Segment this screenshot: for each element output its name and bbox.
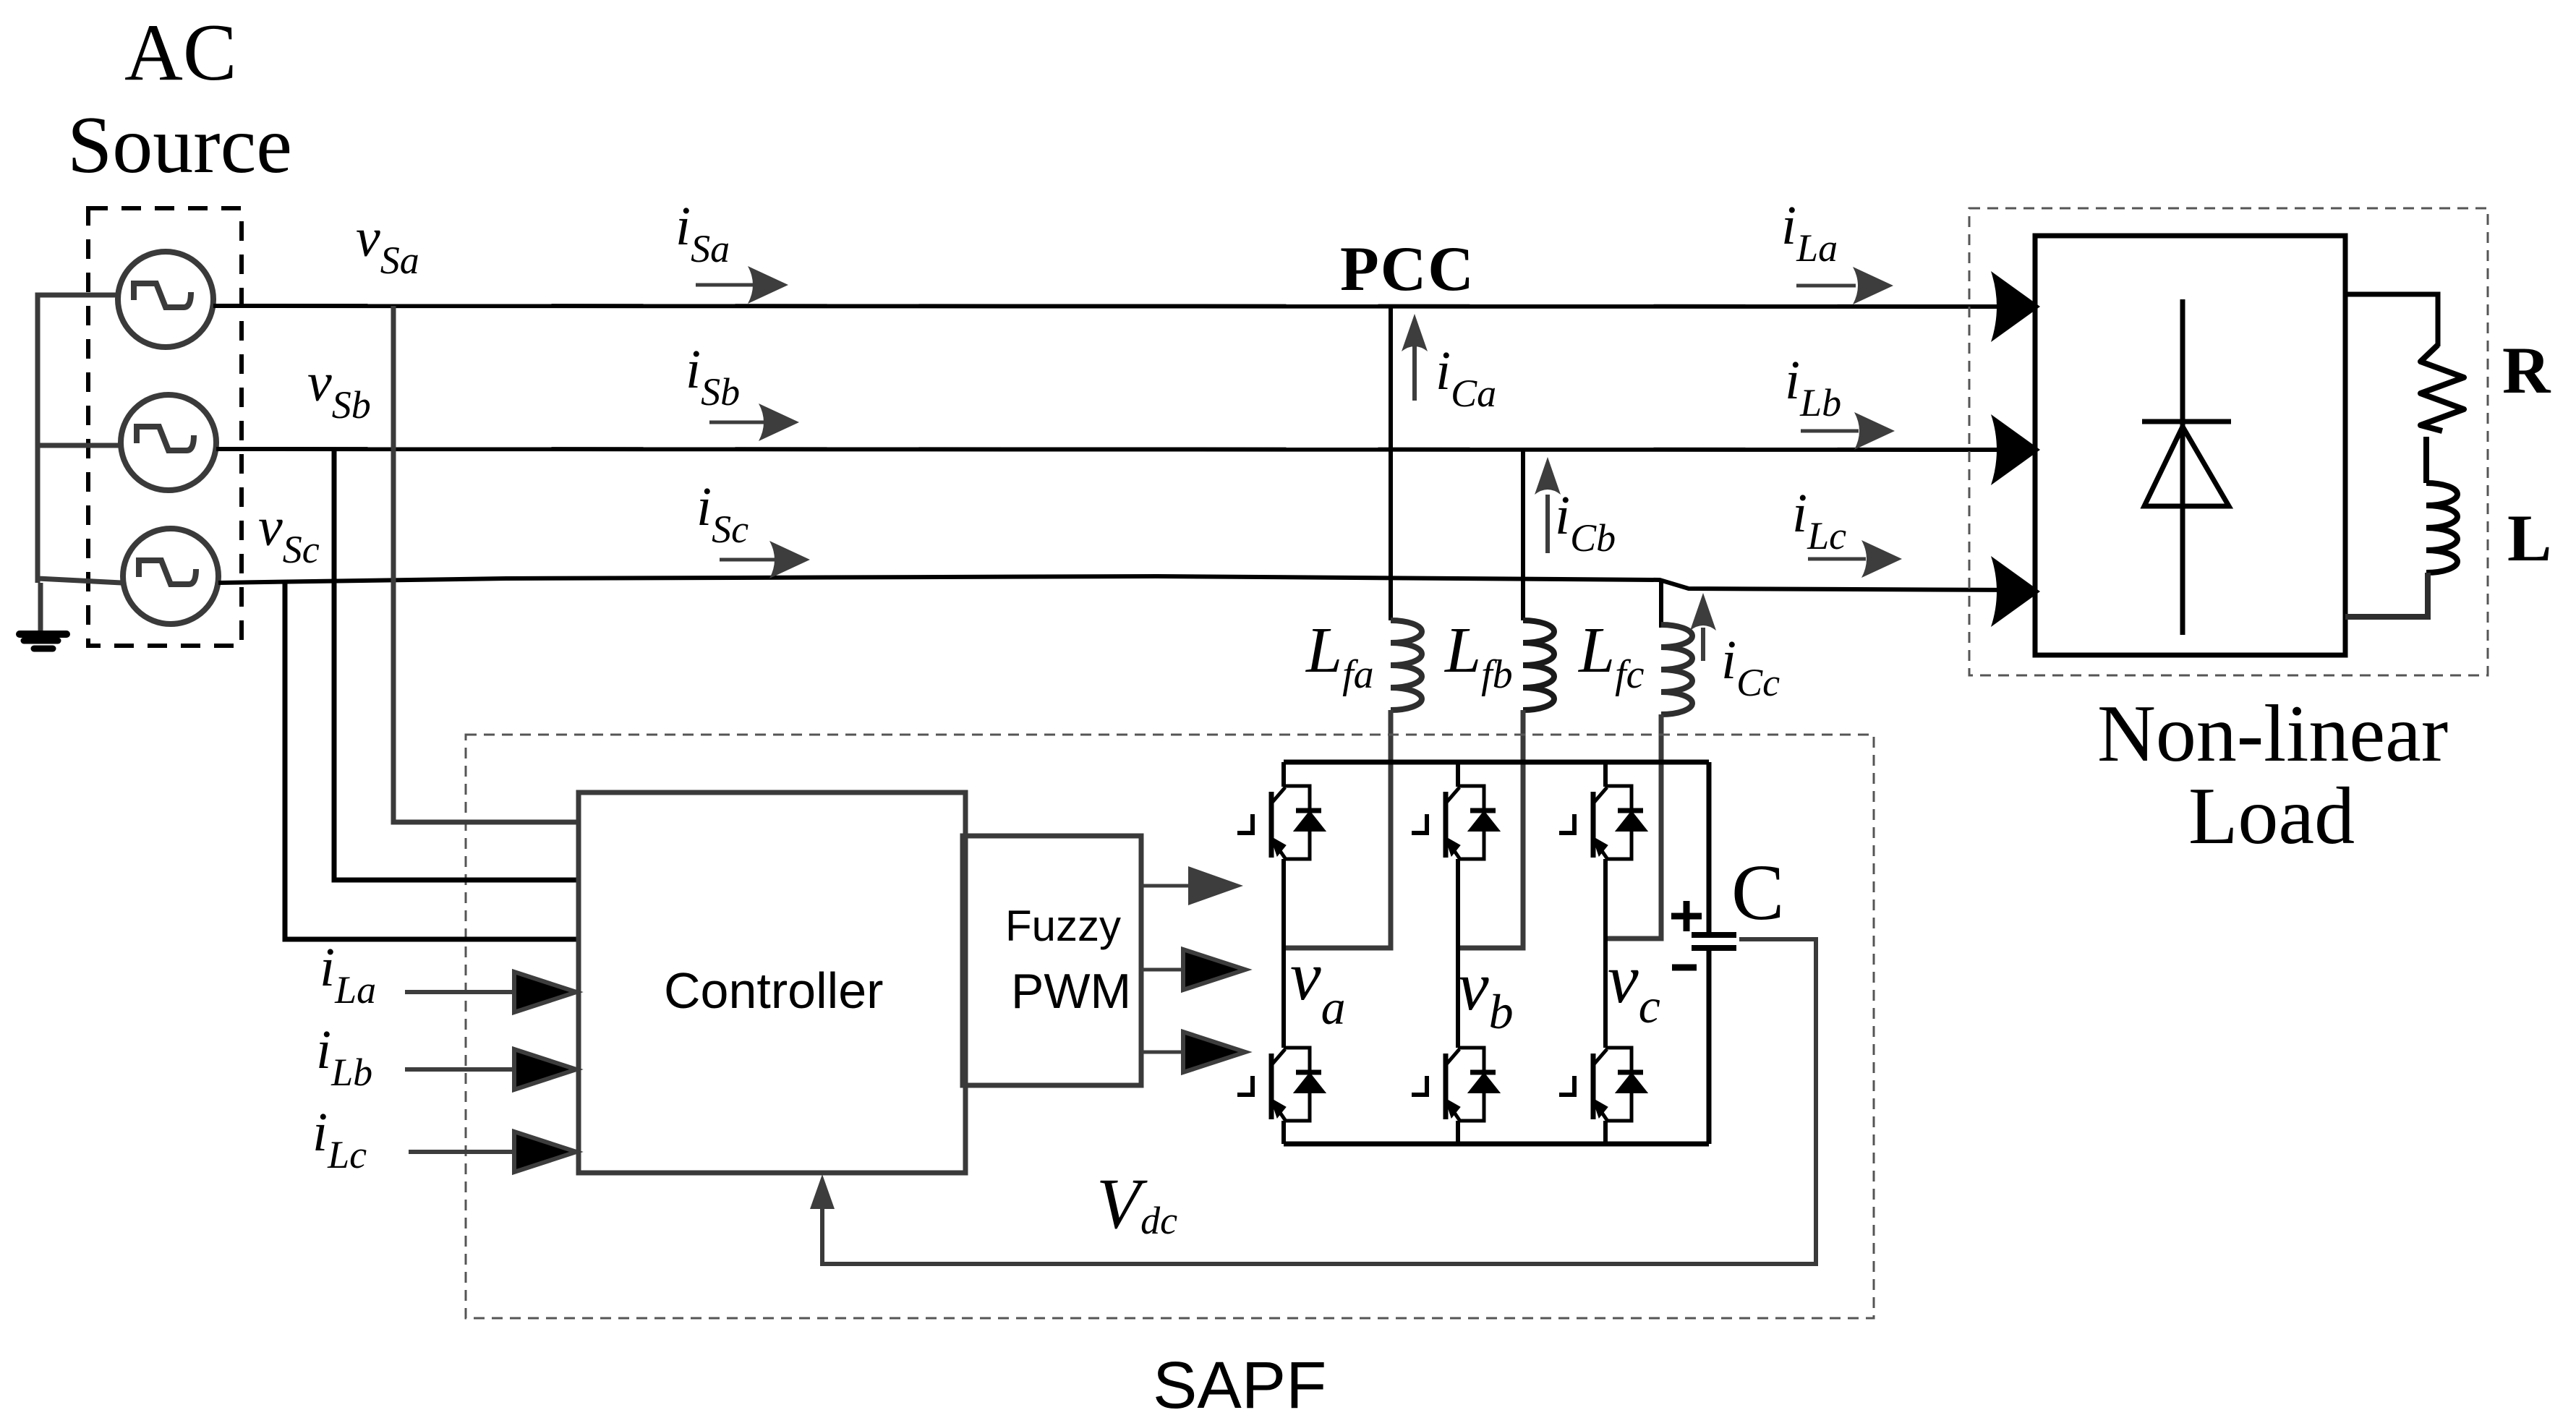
- svg-text:AC: AC: [124, 8, 237, 98]
- wire Vdc feedback: [822, 939, 1816, 1264]
- svg-text:C: C: [1731, 848, 1784, 936]
- svg-text:Fuzzy: Fuzzy: [1005, 902, 1121, 950]
- svg-text:L: L: [2507, 501, 2551, 575]
- controller box: [579, 792, 965, 1173]
- load arrowheads: [1991, 271, 2040, 342]
- AC source Vsa: [118, 252, 213, 347]
- svg-text:vSa: vSa: [356, 208, 419, 282]
- wire Lfb to leg2: [1458, 710, 1523, 948]
- AC source dashed box: [88, 208, 242, 646]
- transistor Q4: [1237, 1048, 1323, 1121]
- wire tap phase B down: [1521, 449, 1525, 620]
- svg-text:iLb: iLb: [1785, 350, 1841, 424]
- wire Lfa to leg1: [1284, 710, 1391, 948]
- leg 3 wire segments: [1603, 762, 1608, 1144]
- svg-text:Non-linear: Non-linear: [2097, 689, 2448, 779]
- wire load bottom: [2345, 573, 2428, 617]
- svg-text:va: va: [1290, 937, 1346, 1035]
- svg-text:iSb: iSb: [686, 339, 740, 414]
- bridge top bar: [1284, 760, 1709, 765]
- rectifier box: [2035, 236, 2345, 655]
- svg-text:iLb: iLb: [316, 1020, 372, 1094]
- transistor Q2: [1412, 786, 1498, 859]
- SAPF dashed box: [466, 735, 1874, 1318]
- AC source Vsb: [121, 395, 216, 490]
- Vdc arrow into controller: [810, 1174, 835, 1209]
- capacitor minus sign: [1672, 965, 1697, 971]
- PWM output arrow 3: [1141, 1051, 1193, 1054]
- svg-text:iLa: iLa: [1781, 195, 1838, 270]
- transistor Q1: [1237, 786, 1323, 859]
- capacitor C plates: [1692, 935, 1736, 948]
- svg-text:Lfc: Lfc: [1577, 615, 1645, 697]
- ground: [20, 634, 67, 649]
- current iCb arrow: [1545, 495, 1550, 553]
- wire tap phase A down: [1389, 306, 1393, 620]
- capacitor plus sign: [1671, 901, 1702, 931]
- wire phase C: [218, 576, 2019, 590]
- transistor Q3: [1559, 786, 1645, 859]
- svg-text:vb: vb: [1458, 947, 1514, 1039]
- svg-text:PCC: PCC: [1340, 234, 1475, 304]
- svg-text:Source: Source: [67, 101, 292, 190]
- sense line vSa to controller: [393, 306, 579, 822]
- wire phase B: [216, 449, 2019, 450]
- inductor Lfc: [1661, 625, 1692, 714]
- diode D1: [2142, 299, 2231, 635]
- svg-text:iLc: iLc: [312, 1102, 367, 1176]
- svg-text:iCc: iCc: [1721, 630, 1780, 704]
- svg-text:iSc: iSc: [696, 477, 749, 551]
- svg-text:vc: vc: [1608, 940, 1660, 1033]
- svg-text:Load: Load: [2188, 772, 2355, 861]
- bridge bottom bar: [1284, 1142, 1709, 1147]
- wire left interconnect: [38, 295, 121, 631]
- svg-text:iLa: iLa: [320, 937, 376, 1012]
- svg-text:Vdc: Vdc: [1096, 1163, 1177, 1244]
- wire R to L: [2423, 437, 2429, 483]
- wire load top: [2345, 294, 2438, 346]
- Non-linear load dashed box: [1969, 208, 2488, 675]
- PWM output arrow 1: [1141, 884, 1193, 888]
- current iCc arrow: [1701, 628, 1705, 661]
- svg-text:vSc: vSc: [258, 497, 320, 571]
- leg 1 wire segments: [1281, 762, 1286, 1144]
- wire tap phase C down: [1659, 582, 1663, 628]
- inductor L: [2426, 483, 2457, 573]
- wire phase A: [213, 306, 2019, 307]
- sense line vSc to controller: [285, 582, 579, 939]
- sense line vSb to controller: [334, 449, 579, 880]
- wire Lfc to leg3: [1605, 714, 1661, 939]
- bridge right rail with capacitor gap: [1707, 762, 1712, 1144]
- PWM output arrow 2: [1141, 968, 1193, 972]
- transistor Q6: [1559, 1048, 1645, 1121]
- svg-text:SAPF: SAPF: [1153, 1349, 1326, 1422]
- leg 2 wire segments: [1456, 762, 1460, 1144]
- svg-text:Controller: Controller: [664, 962, 883, 1019]
- AC source Vsc: [123, 529, 218, 624]
- svg-text:PWM: PWM: [1011, 964, 1131, 1019]
- current iCa arrow: [1412, 343, 1417, 401]
- inductor Lfa: [1391, 620, 1422, 710]
- svg-text:iCa: iCa: [1436, 341, 1496, 415]
- svg-text:vSb: vSb: [307, 352, 371, 427]
- svg-text:Lfa: Lfa: [1305, 615, 1374, 697]
- svg-text:iLc: iLc: [1792, 483, 1846, 557]
- transistor Q5: [1412, 1048, 1498, 1121]
- resistor R: [2421, 345, 2464, 431]
- svg-text:iCb: iCb: [1555, 485, 1616, 560]
- svg-text:iSa: iSa: [675, 196, 730, 270]
- svg-text:Lfb: Lfb: [1443, 615, 1513, 697]
- svg-text:R: R: [2502, 333, 2551, 407]
- Fuzzy PWM box: [963, 836, 1141, 1085]
- inductor Lfb: [1523, 620, 1554, 710]
